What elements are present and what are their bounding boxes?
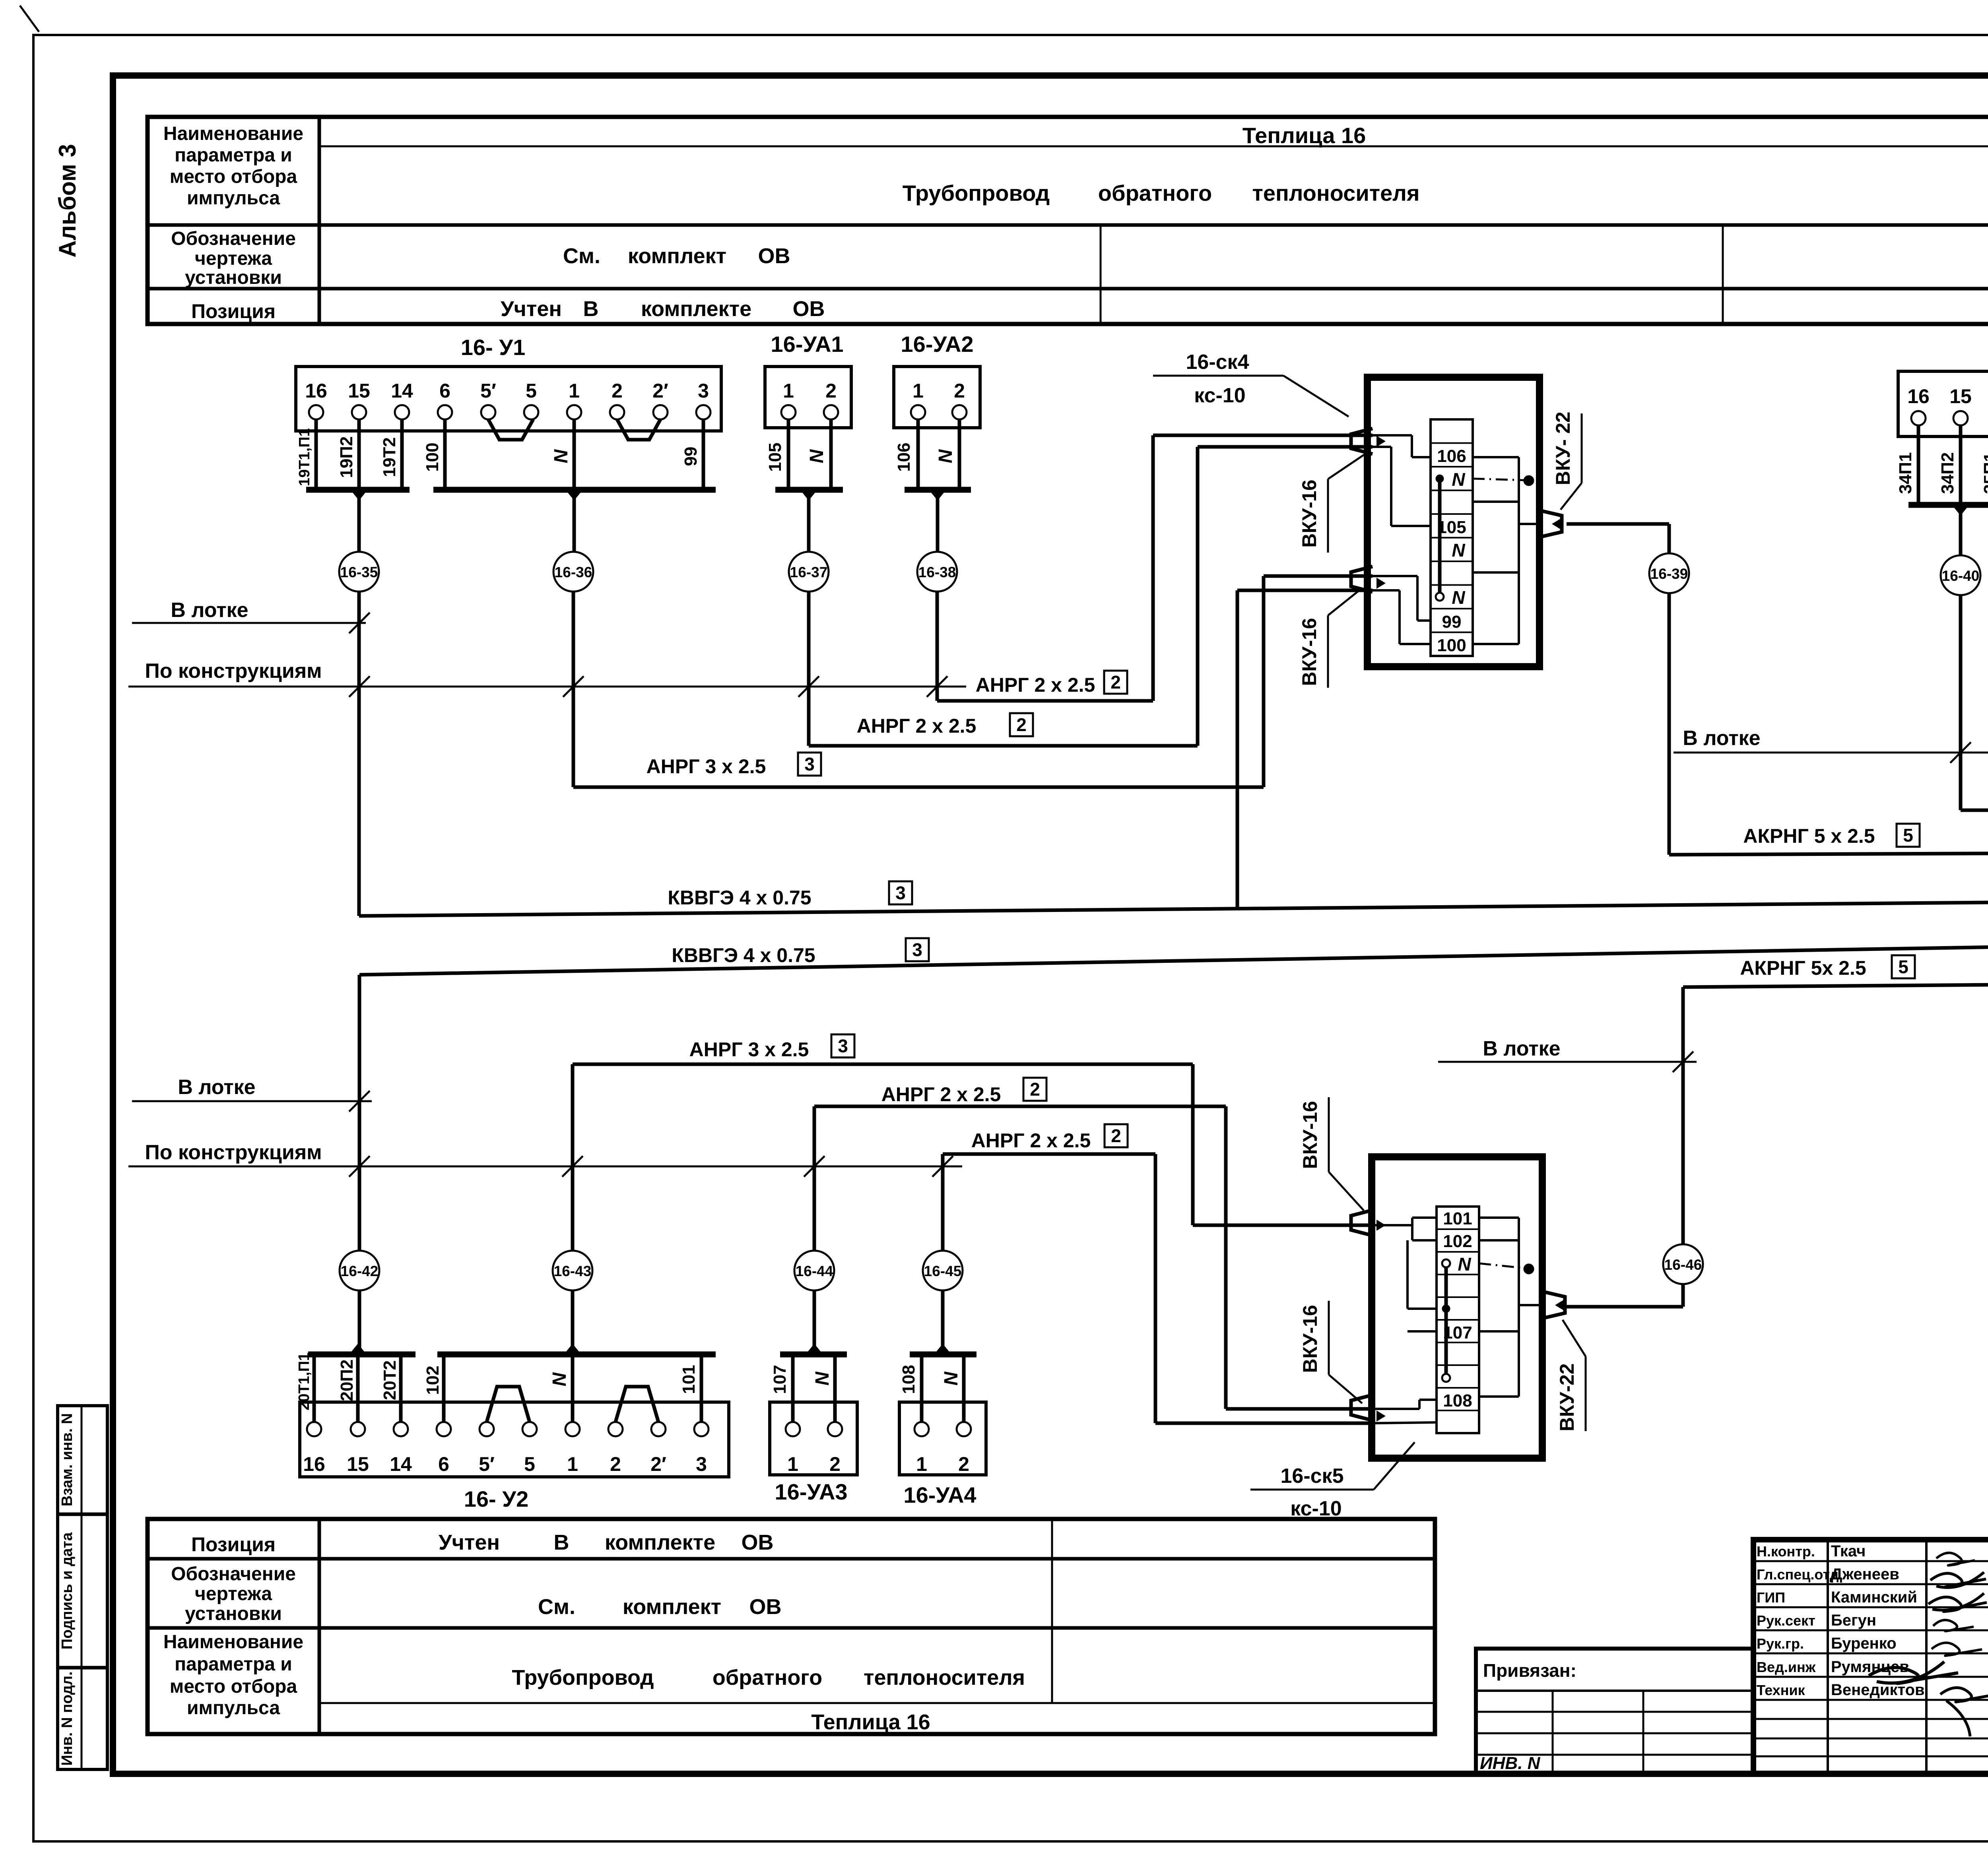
- svg-text:В лотке: В лотке: [178, 1076, 255, 1099]
- svg-text:101: 101: [1443, 1209, 1472, 1228]
- svg-text:В лотке: В лотке: [171, 599, 248, 622]
- svg-text:16- У2: 16- У2: [464, 1486, 528, 1511]
- svg-text:16-ск4: 16-ск4: [1186, 351, 1249, 374]
- svg-text:Дженеев: Дженеев: [1831, 1565, 1899, 1583]
- svg-text:3: 3: [804, 754, 815, 774]
- svg-text:108: 108: [899, 1365, 918, 1394]
- svg-text:АКРНГ 5 х 2.5: АКРНГ 5 х 2.5: [1743, 825, 1875, 847]
- svg-text:параметра и: параметра и: [175, 145, 292, 166]
- svg-text:16-УА1: 16-УА1: [771, 332, 843, 357]
- svg-text:кс-10: кс-10: [1194, 384, 1245, 407]
- svg-text:100: 100: [1437, 636, 1466, 655]
- svg-text:ОВ: ОВ: [793, 297, 825, 321]
- svg-text:14: 14: [390, 1453, 412, 1475]
- svg-text:Позиция: Позиция: [191, 1533, 276, 1556]
- svg-text:2: 2: [954, 380, 965, 402]
- svg-text:Подпись и дата: Подпись и дата: [59, 1532, 76, 1649]
- svg-text:20Т2: 20Т2: [380, 1360, 400, 1400]
- svg-text:ВКУ-16: ВКУ-16: [1299, 1101, 1321, 1169]
- svg-text:ОВ: ОВ: [742, 1531, 774, 1554]
- svg-text:N: N: [1458, 1254, 1471, 1275]
- svg-text:ВКУ-22: ВКУ-22: [1556, 1363, 1578, 1431]
- svg-text:Учтен: Учтен: [439, 1531, 500, 1554]
- svg-text:99: 99: [1442, 612, 1462, 632]
- svg-text:КВВГЭ 4 х 0.75: КВВГЭ 4 х 0.75: [672, 944, 815, 966]
- svg-text:2: 2: [610, 1453, 621, 1475]
- svg-text:кс-10: кс-10: [1290, 1497, 1342, 1520]
- svg-text:Позиция: Позиция: [191, 300, 276, 322]
- svg-text:16-43: 16-43: [554, 1263, 592, 1279]
- svg-text:Наименование: Наименование: [163, 123, 303, 144]
- svg-text:В лотке: В лотке: [1683, 727, 1760, 750]
- svg-text:2: 2: [829, 1453, 841, 1475]
- svg-text:15: 15: [348, 380, 370, 402]
- svg-text:15: 15: [1949, 385, 1972, 407]
- svg-text:35П1: 35П1: [1980, 452, 1988, 494]
- svg-text:16-УА4: 16-УА4: [903, 1482, 976, 1507]
- svg-text:5: 5: [524, 1453, 535, 1475]
- svg-text:чертежа: чертежа: [195, 248, 272, 269]
- svg-text:В лотке: В лотке: [1483, 1037, 1560, 1060]
- svg-text:16-35: 16-35: [340, 564, 378, 580]
- svg-text:2: 2: [1110, 672, 1121, 693]
- svg-text:Ткач: Ткач: [1831, 1542, 1866, 1560]
- svg-text:16-42: 16-42: [341, 1263, 379, 1279]
- svg-text:N: N: [812, 1371, 833, 1385]
- svg-text:теплоносителя: теплоносителя: [1252, 180, 1419, 206]
- svg-text:обратного: обратного: [712, 1666, 822, 1690]
- svg-text:Наименование: Наименование: [163, 1631, 303, 1653]
- svg-text:3: 3: [698, 380, 709, 402]
- svg-text:16-36: 16-36: [555, 564, 592, 580]
- svg-text:34П2: 34П2: [1938, 452, 1957, 494]
- svg-text:16-46: 16-46: [1664, 1257, 1702, 1273]
- svg-text:Теплица 16: Теплица 16: [811, 1710, 930, 1734]
- svg-text:16-УА2: 16-УА2: [901, 332, 973, 357]
- svg-text:N: N: [806, 449, 827, 463]
- svg-text:N: N: [935, 449, 956, 463]
- svg-text:100: 100: [423, 442, 442, 471]
- svg-text:ОВ: ОВ: [758, 244, 790, 268]
- svg-text:Каминский: Каминский: [1831, 1589, 1917, 1606]
- svg-text:16-45: 16-45: [924, 1263, 962, 1279]
- svg-text:19Т1,П1: 19Т1,П1: [296, 428, 313, 486]
- svg-text:комплекте: комплекте: [605, 1531, 715, 1554]
- svg-text:ИНВ. N: ИНВ. N: [1480, 1754, 1541, 1773]
- svg-text:2: 2: [958, 1453, 969, 1475]
- svg-text:место отбора: место отбора: [170, 166, 297, 187]
- svg-text:По конструкциям: По конструкциям: [145, 1141, 322, 1164]
- svg-text:Буренко: Буренко: [1831, 1635, 1897, 1652]
- svg-text:6: 6: [438, 1453, 449, 1475]
- svg-text:101: 101: [679, 1365, 699, 1394]
- svg-text:16-40: 16-40: [1942, 568, 1980, 584]
- svg-text:108: 108: [1443, 1391, 1472, 1410]
- svg-text:16: 16: [1907, 385, 1930, 407]
- svg-text:АНРГ 3 х 2.5: АНРГ 3 х 2.5: [689, 1038, 809, 1061]
- svg-text:16-39: 16-39: [1650, 566, 1688, 582]
- svg-text:Рук.сект: Рук.сект: [1757, 1612, 1815, 1629]
- svg-text:N: N: [1452, 469, 1465, 490]
- svg-text:5: 5: [1903, 825, 1913, 846]
- svg-text:2: 2: [612, 380, 623, 402]
- svg-text:1: 1: [912, 380, 924, 402]
- svg-text:1: 1: [569, 380, 580, 402]
- svg-text:N: N: [941, 1371, 962, 1385]
- svg-text:1: 1: [783, 380, 794, 402]
- svg-text:3: 3: [696, 1453, 707, 1475]
- svg-text:Инв. N подл.: Инв. N подл.: [59, 1671, 76, 1765]
- svg-text:Альбом 3: Альбом 3: [54, 144, 81, 258]
- svg-text:3: 3: [895, 883, 906, 903]
- svg-text:3: 3: [838, 1036, 848, 1056]
- svg-text:АНРГ 3 х 2.5: АНРГ 3 х 2.5: [646, 755, 766, 778]
- svg-text:106: 106: [894, 442, 914, 471]
- svg-text:АНРГ 2 х 2.5: АНРГ 2 х 2.5: [881, 1083, 1001, 1106]
- svg-text:установки: установки: [185, 267, 282, 288]
- svg-text:Гл.спец.отд: Гл.спец.отд: [1757, 1566, 1839, 1583]
- svg-text:20П2: 20П2: [337, 1359, 357, 1401]
- svg-text:ВКУ-16: ВКУ-16: [1299, 1305, 1321, 1373]
- svg-text:1: 1: [916, 1453, 927, 1475]
- svg-text:Привязан:: Привязан:: [1483, 1660, 1576, 1681]
- svg-text:16-УА3: 16-УА3: [775, 1479, 847, 1504]
- svg-text:N: N: [1452, 587, 1465, 608]
- svg-text:Обозначение: Обозначение: [171, 1564, 296, 1585]
- svg-text:19Т2: 19Т2: [380, 437, 399, 477]
- svg-text:Рук.гр.: Рук.гр.: [1757, 1635, 1804, 1652]
- svg-text:2′: 2′: [650, 1453, 666, 1475]
- svg-text:N: N: [549, 1372, 570, 1386]
- svg-text:16: 16: [305, 380, 327, 402]
- svg-text:Бегун: Бегун: [1831, 1612, 1876, 1629]
- svg-text:99: 99: [681, 447, 701, 466]
- svg-text:АНРГ 2 х 2.5: АНРГ 2 х 2.5: [857, 715, 977, 737]
- svg-text:Н.контр.: Н.контр.: [1757, 1543, 1815, 1560]
- svg-text:Учтен: Учтен: [501, 297, 562, 321]
- svg-text:16-38: 16-38: [918, 564, 956, 580]
- svg-text:5′: 5′: [479, 1453, 495, 1475]
- svg-text:теплоносителя: теплоносителя: [864, 1666, 1025, 1690]
- svg-text:2: 2: [825, 380, 837, 402]
- svg-text:параметра и: параметра и: [175, 1654, 292, 1675]
- svg-text:импульса: импульса: [187, 188, 280, 209]
- svg-text:АКРНГ 5х 2.5: АКРНГ 5х 2.5: [1740, 957, 1866, 979]
- svg-text:14: 14: [391, 380, 413, 402]
- svg-text:установки: установки: [185, 1603, 282, 1624]
- svg-text:16-44: 16-44: [796, 1263, 833, 1279]
- svg-text:Теплица 16: Теплица 16: [1242, 123, 1366, 148]
- svg-text:16-ск5: 16-ск5: [1280, 1465, 1343, 1488]
- svg-text:5: 5: [526, 380, 537, 402]
- svg-text:5: 5: [1898, 956, 1908, 977]
- svg-text:2′: 2′: [652, 380, 668, 402]
- svg-text:В: В: [583, 297, 599, 321]
- svg-text:102: 102: [1443, 1232, 1472, 1251]
- svg-text:1: 1: [567, 1453, 578, 1475]
- svg-text:102: 102: [423, 1366, 443, 1395]
- svg-text:106: 106: [1437, 446, 1466, 466]
- svg-text:чертежа: чертежа: [195, 1583, 272, 1604]
- svg-text:2: 2: [1016, 714, 1027, 735]
- svg-text:импульса: импульса: [187, 1697, 280, 1719]
- svg-text:ВКУ- 22: ВКУ- 22: [1552, 411, 1574, 485]
- svg-text:105: 105: [765, 442, 785, 471]
- svg-text:5′: 5′: [480, 380, 496, 402]
- svg-text:АНРГ 2 х 2.5: АНРГ 2 х 2.5: [971, 1129, 1091, 1152]
- svg-text:КВВГЭ 4 х 0.75: КВВГЭ 4 х 0.75: [668, 887, 811, 909]
- svg-text:107: 107: [770, 1365, 790, 1394]
- svg-text:ВКУ-16: ВКУ-16: [1298, 618, 1320, 686]
- svg-text:20Т1,П1: 20Т1,П1: [296, 1352, 313, 1410]
- svg-text:Взам. инв. N: Взам. инв. N: [59, 1413, 76, 1506]
- svg-text:19П2: 19П2: [337, 436, 356, 478]
- svg-text:обратного: обратного: [1098, 180, 1212, 206]
- svg-text:Трубопровод: Трубопровод: [903, 180, 1050, 206]
- svg-text:15: 15: [347, 1453, 369, 1475]
- svg-text:Техник: Техник: [1757, 1682, 1806, 1698]
- svg-text:16: 16: [303, 1453, 325, 1475]
- svg-text:Венедиктов: Венедиктов: [1831, 1681, 1925, 1699]
- svg-text:16-37: 16-37: [790, 564, 828, 580]
- svg-text:комплект: комплект: [628, 244, 726, 268]
- svg-text:ВКУ-16: ВКУ-16: [1298, 479, 1320, 547]
- svg-text:См.: См.: [563, 244, 600, 268]
- svg-text:2: 2: [1111, 1125, 1121, 1146]
- svg-text:комплекте: комплекте: [641, 297, 751, 321]
- svg-text:АНРГ 2 х 2.5: АНРГ 2 х 2.5: [976, 674, 1095, 696]
- svg-text:Вед.инж: Вед.инж: [1757, 1659, 1816, 1675]
- svg-text:По конструкциям: По конструкциям: [145, 660, 322, 683]
- svg-text:ОВ: ОВ: [749, 1595, 782, 1619]
- svg-text:комплект: комплект: [623, 1595, 721, 1619]
- svg-text:34П1: 34П1: [1896, 452, 1915, 494]
- svg-text:2: 2: [1030, 1079, 1040, 1100]
- svg-text:6: 6: [439, 380, 450, 402]
- svg-text:N: N: [1452, 540, 1465, 561]
- svg-text:ГИП: ГИП: [1757, 1589, 1785, 1606]
- svg-text:См.: См.: [538, 1595, 575, 1619]
- svg-text:N: N: [551, 449, 572, 463]
- svg-text:1: 1: [787, 1453, 798, 1475]
- svg-text:место отбора: место отбора: [170, 1676, 297, 1697]
- svg-text:16- У1: 16- У1: [461, 335, 525, 360]
- svg-text:3: 3: [912, 939, 922, 960]
- svg-text:Обозначение: Обозначение: [171, 228, 296, 249]
- svg-text:В: В: [554, 1531, 569, 1554]
- svg-text:Трубопровод: Трубопровод: [512, 1666, 654, 1690]
